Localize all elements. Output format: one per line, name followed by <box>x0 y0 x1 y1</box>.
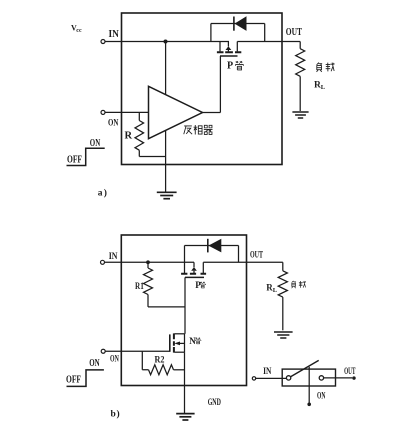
svg-text:ON: ON <box>90 138 101 149</box>
svg-text:IN: IN <box>263 366 272 376</box>
svg-text:cc: cc <box>76 28 82 34</box>
svg-text:L: L <box>321 84 326 91</box>
svg-text:IN: IN <box>109 29 120 40</box>
svg-text:GND: GND <box>208 397 222 407</box>
svg-text:ON: ON <box>317 391 326 401</box>
svg-text:): ) <box>117 409 120 420</box>
svg-text:b: b <box>111 410 116 420</box>
svg-text:IN: IN <box>109 252 118 262</box>
svg-text:L: L <box>273 287 278 294</box>
svg-text:OFF: OFF <box>67 154 82 165</box>
svg-text:OUT: OUT <box>286 27 302 38</box>
svg-text:R2: R2 <box>155 354 165 364</box>
svg-text:OUT: OUT <box>250 250 263 260</box>
svg-text:N: N <box>189 336 196 346</box>
svg-text:a: a <box>98 189 103 199</box>
svg-text:ON: ON <box>89 358 100 369</box>
svg-text:): ) <box>104 188 107 199</box>
svg-text:P: P <box>195 280 201 290</box>
svg-text:OUT: OUT <box>344 366 355 376</box>
svg-text:OFF: OFF <box>66 374 81 385</box>
svg-text:ON: ON <box>110 354 119 364</box>
svg-text:R: R <box>125 131 133 142</box>
svg-text:R1: R1 <box>135 281 144 291</box>
svg-text:ON: ON <box>108 119 119 129</box>
svg-text:P: P <box>227 61 233 72</box>
